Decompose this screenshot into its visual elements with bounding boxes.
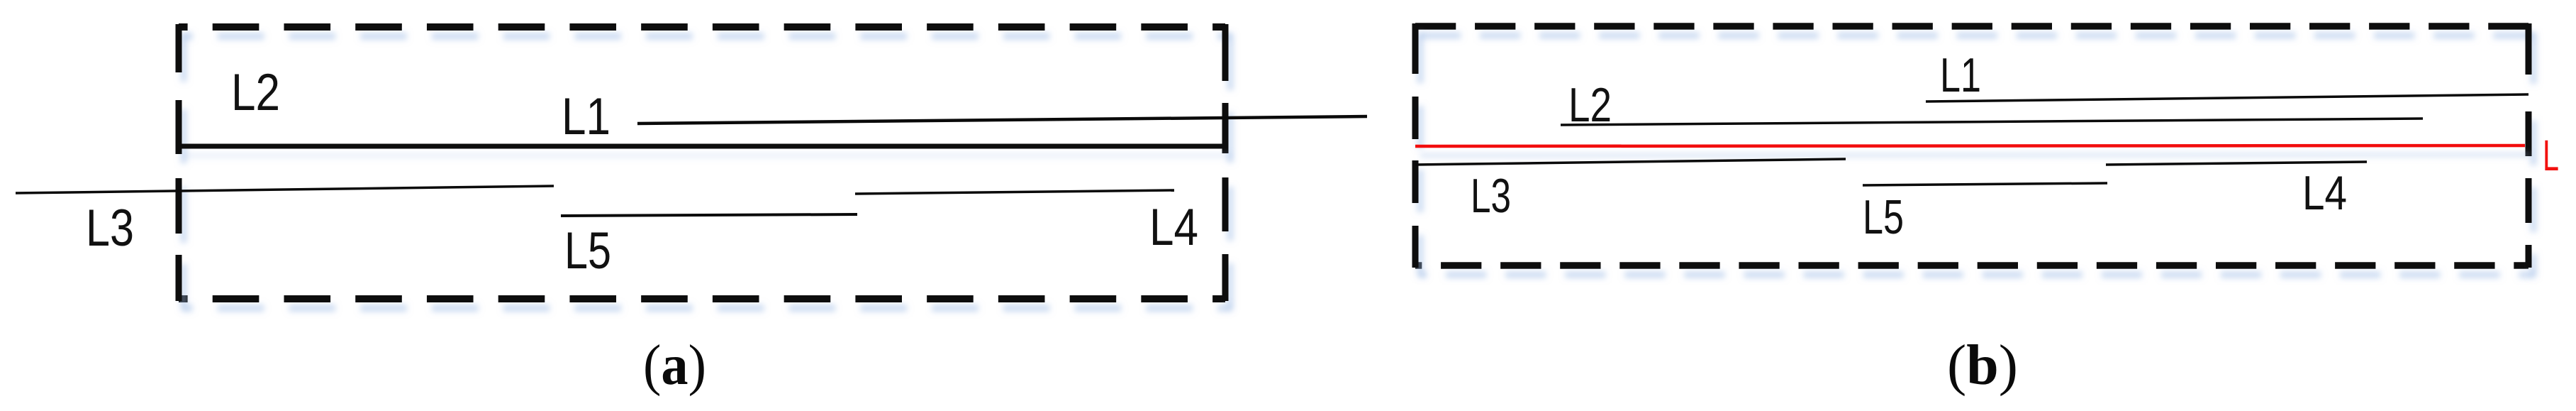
svg-text:L2: L2 — [1568, 78, 1612, 132]
segment L4 line (a) — [855, 190, 1174, 194]
svg-text:(a): (a) — [643, 334, 706, 397]
segment L3 line (a) — [16, 186, 554, 193]
segment L4 line (b) — [2106, 162, 2367, 165]
segment L5 line (b) — [1863, 183, 2107, 185]
red query line L (b) — [1415, 146, 2525, 146]
segment L2 line (a) thick — [179, 144, 1227, 149]
svg-text:L2: L2 — [231, 64, 280, 121]
svg-text:(b): (b) — [1947, 334, 2018, 397]
segment L5 line (a) — [561, 214, 857, 216]
dashed box (b) : left edge dashes — [1412, 23, 1419, 268]
segment L2 line (b) — [1561, 119, 2423, 125]
svg-text:L4: L4 — [2302, 166, 2347, 220]
svg-text:L1: L1 — [562, 88, 610, 146]
dashed box (a) : horizontal edges — [179, 27, 1225, 299]
segment L1 line (a) — [637, 116, 1367, 124]
svg-text:L3: L3 — [86, 199, 134, 257]
svg-text:L3: L3 — [1471, 169, 1511, 223]
dashed box (b) : horizontal edges — [1415, 26, 2528, 265]
svg-text:L4: L4 — [1149, 199, 1198, 256]
svg-text:L: L — [2543, 131, 2559, 180]
segment L3 line (b) — [1415, 159, 1846, 165]
svg-text:L5: L5 — [564, 222, 611, 280]
dashed box (a) : right edge dashes — [1222, 24, 1229, 301]
dashed box (b) : right edge dashes — [2526, 23, 2532, 268]
svg-text:L5: L5 — [1863, 190, 1904, 244]
svg-text:L1: L1 — [1940, 48, 1981, 102]
dashed box (a) : left edge dashes — [176, 24, 182, 301]
segment L1 line (b) — [1926, 94, 2528, 102]
